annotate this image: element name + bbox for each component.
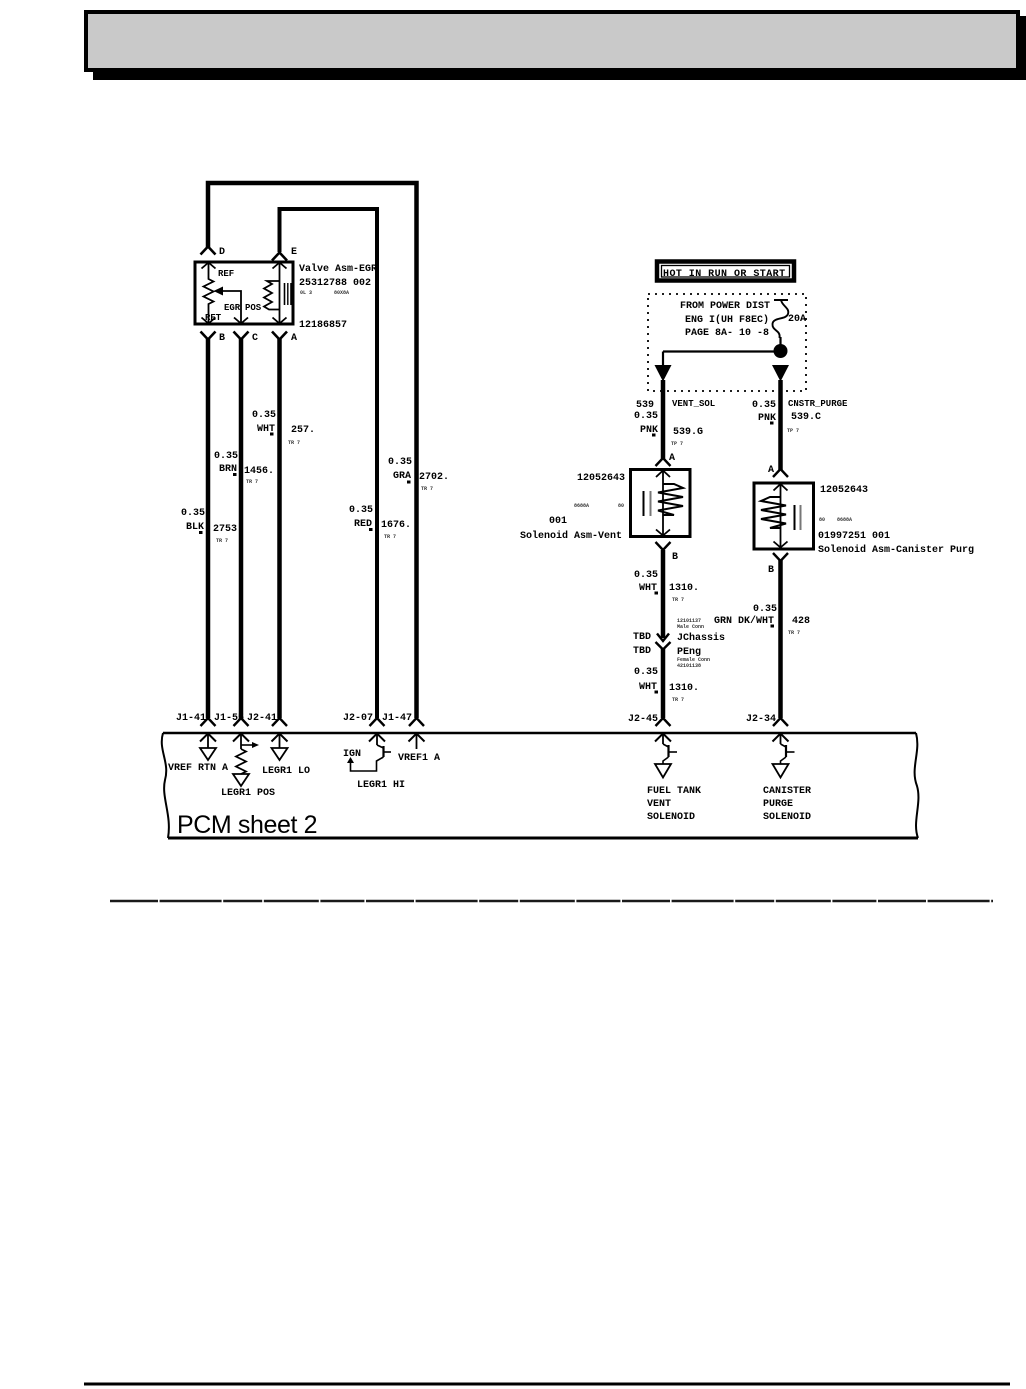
- svg-text:0.35: 0.35: [388, 457, 412, 468]
- PCM box top line: [163, 732, 916, 735]
- svg-text:TR 7: TR 7: [421, 486, 433, 492]
- PCM internal: J2-07 driver LEGR1 HI: [369, 734, 385, 742]
- junction node: [779, 337, 781, 346]
- wire E top loop: [280, 209, 378, 718]
- svg-text:FROM POWER DIST: FROM POWER DIST: [680, 301, 770, 312]
- svg-text:25312788 002: 25312788 002: [299, 278, 371, 289]
- wire WHT 1310 lower: [661, 649, 666, 718]
- PCM internal: J1-47 VREF1 A: [409, 734, 425, 742]
- svg-text:SOLENOID: SOLENOID: [763, 812, 811, 823]
- svg-text:J1-55: J1-55: [214, 713, 244, 724]
- svg-text:0.35: 0.35: [634, 667, 658, 678]
- svg-text:J2-34: J2-34: [746, 714, 776, 725]
- wire GRN DK/WHT 428: [778, 560, 783, 718]
- PCM internal: J1-55 LEGR1 POS with resistor: [233, 734, 249, 742]
- wire bottom connectors at PCM: [201, 718, 216, 726]
- PCM wavy right edge: [915, 733, 919, 838]
- svg-text:GRA: GRA: [393, 471, 411, 482]
- fuse 20A: [774, 299, 788, 301]
- svg-text:12186857: 12186857: [299, 320, 347, 331]
- wire B down: [206, 339, 211, 718]
- svg-text:CANISTER: CANISTER: [763, 786, 811, 797]
- svg-text:42101138: 42101138: [677, 663, 701, 669]
- svg-text:LEGR1 POS: LEGR1 POS: [221, 788, 275, 799]
- EGR solenoid coil: [273, 263, 287, 269]
- HOT IN RUN OR START box: [657, 262, 794, 281]
- wire D top loop: [208, 183, 417, 718]
- svg-text:TR 7: TR 7: [246, 479, 258, 485]
- svg-text:12052643: 12052643: [820, 485, 868, 496]
- svg-text:Solenoid Asm-Vent: Solenoid Asm-Vent: [520, 530, 622, 542]
- svg-text:1676.: 1676.: [381, 520, 411, 531]
- separator line: [110, 900, 993, 902]
- color code ticks: [270, 433, 274, 436]
- svg-text:VREF RTN A: VREF RTN A: [168, 763, 228, 774]
- svg-text:80X8A: 80X8A: [334, 290, 349, 296]
- svg-text:20A: 20A: [788, 314, 806, 325]
- svg-text:0.35: 0.35: [252, 410, 276, 421]
- header bar: [86, 12, 1018, 70]
- svg-text:8688A: 8688A: [574, 503, 589, 509]
- inline connector TBD/TBD: [657, 634, 669, 642]
- svg-text:VREF1 A: VREF1 A: [398, 753, 440, 764]
- wiper arrow: [214, 287, 224, 296]
- svg-text:VENT_SOL: VENT_SOL: [672, 399, 715, 409]
- pin E connector: [272, 253, 287, 261]
- svg-text:Solenoid Asm-Canister Purg: Solenoid Asm-Canister Purg: [818, 544, 974, 556]
- header shadow: [93, 16, 1026, 80]
- svg-text:1310.: 1310.: [669, 583, 699, 594]
- svg-text:IGN: IGN: [343, 749, 361, 760]
- svg-text:539.G: 539.G: [673, 427, 703, 438]
- svg-text:0L 3: 0L 3: [300, 290, 312, 296]
- svg-text:A: A: [291, 333, 297, 344]
- svg-text:TP 7: TP 7: [787, 428, 799, 434]
- svg-text:POS: POS: [245, 303, 262, 313]
- svg-text:2702.: 2702.: [419, 472, 449, 483]
- svg-text:539: 539: [636, 400, 654, 411]
- svg-text:PURGE: PURGE: [763, 799, 793, 810]
- PCM internal: J2-41 LEGR1 LO: [272, 734, 288, 742]
- svg-text:PCM sheet 2: PCM sheet 2: [177, 811, 317, 839]
- svg-text:TBD: TBD: [633, 632, 651, 643]
- svg-text:A: A: [669, 453, 675, 464]
- svg-text:B: B: [672, 552, 678, 563]
- svg-text:TR 7: TR 7: [672, 597, 684, 603]
- svg-text:001: 001: [549, 516, 567, 527]
- svg-text:0.35: 0.35: [634, 570, 658, 581]
- svg-text:JChassis: JChassis: [677, 632, 725, 644]
- svg-text:LEGR1 LO: LEGR1 LO: [262, 766, 310, 777]
- svg-text:80: 80: [618, 503, 624, 509]
- PCM wavy left edge: [162, 733, 169, 838]
- PCM internal: J2-34 driver canister purge: [773, 734, 789, 742]
- svg-text:J2-41: J2-41: [247, 713, 277, 724]
- wire A down: [277, 339, 282, 718]
- svg-text:PAGE 8A- 10 -8: PAGE 8A- 10 -8: [685, 328, 769, 339]
- svg-text:TR 7: TR 7: [384, 534, 396, 540]
- pins B C A connectors: [201, 332, 216, 340]
- PCM internal: J1-41 VREF RTN A: [200, 734, 216, 742]
- svg-text:TP 7: TP 7: [671, 441, 683, 447]
- svg-text:FUEL TANK: FUEL TANK: [647, 786, 701, 797]
- svg-text:LEGR1 HI: LEGR1 HI: [357, 780, 405, 791]
- svg-text:J1-47: J1-47: [382, 713, 412, 724]
- svg-text:EGR: EGR: [224, 303, 241, 313]
- svg-text:RET: RET: [205, 313, 222, 323]
- svg-text:TR 7: TR 7: [788, 630, 800, 636]
- svg-text:01997251 001: 01997251 001: [818, 531, 890, 542]
- svg-text:0.35: 0.35: [181, 508, 205, 519]
- svg-text:C: C: [252, 333, 258, 344]
- svg-text:Valve Asm-EGR: Valve Asm-EGR: [299, 263, 377, 275]
- power dist dashed box: [648, 294, 806, 391]
- PCM box bottom line: [168, 837, 918, 840]
- pin D connector: [201, 247, 216, 255]
- canister purge solenoid box: [754, 483, 814, 549]
- svg-text:SOLENOID: SOLENOID: [647, 812, 695, 823]
- svg-text:1456.: 1456.: [244, 466, 274, 477]
- potentiometer R (EGR pintle position sensor): [202, 263, 216, 269]
- svg-text:D: D: [219, 247, 225, 258]
- svg-text:0.35: 0.35: [753, 604, 777, 615]
- svg-text:2753.: 2753.: [213, 524, 243, 535]
- svg-text:TBD: TBD: [633, 646, 651, 657]
- EGR valve box: [195, 262, 293, 324]
- svg-text:B: B: [768, 565, 774, 576]
- svg-text:HOT IN RUN OR START: HOT IN RUN OR START: [663, 269, 786, 280]
- feed arrows: [655, 365, 672, 382]
- vent solenoid box U-vent: [631, 470, 691, 537]
- bottom rule: [84, 1383, 1010, 1386]
- svg-text:E: E: [291, 247, 297, 258]
- svg-text:A: A: [768, 465, 774, 476]
- svg-text:1310.: 1310.: [669, 683, 699, 694]
- svg-text:TR 7: TR 7: [216, 538, 228, 544]
- svg-text:0.35: 0.35: [634, 411, 658, 422]
- svg-text:J1-41: J1-41: [176, 713, 206, 724]
- svg-text:0.35: 0.35: [214, 451, 238, 462]
- wire PNK to canister purge solenoid: [778, 380, 783, 470]
- svg-text:0.35: 0.35: [752, 400, 776, 411]
- svg-text:539.C: 539.C: [791, 412, 821, 423]
- svg-text:8688A: 8688A: [837, 517, 852, 523]
- wire 539 PNK to vent solenoid: [661, 380, 666, 459]
- svg-text:VENT: VENT: [647, 799, 671, 810]
- svg-text:CNSTR_PURGE: CNSTR_PURGE: [788, 399, 848, 409]
- svg-text:Male Conn: Male Conn: [677, 624, 704, 630]
- svg-text:J2-45: J2-45: [628, 714, 658, 725]
- svg-text:WHT: WHT: [639, 583, 657, 594]
- wire WHT 1310 upper: [661, 550, 666, 638]
- svg-text:0.35: 0.35: [349, 505, 373, 516]
- svg-text:80: 80: [819, 517, 825, 523]
- svg-text:TR 7: TR 7: [288, 440, 300, 446]
- svg-text:ENG I(UH F8EC): ENG I(UH F8EC): [685, 314, 769, 326]
- svg-text:REF: REF: [218, 269, 234, 279]
- svg-text:GRN DK/WHT: GRN DK/WHT: [714, 615, 774, 627]
- svg-text:12052643: 12052643: [577, 473, 625, 484]
- wire C down: [239, 339, 244, 718]
- svg-text:257.: 257.: [291, 425, 315, 436]
- svg-text:J2-07: J2-07: [343, 713, 373, 724]
- svg-text:WHT: WHT: [639, 682, 657, 693]
- PCM internal: J2-45 driver fuel tank vent: [655, 734, 671, 742]
- svg-text:TR 7: TR 7: [672, 697, 684, 703]
- svg-text:B: B: [219, 333, 225, 344]
- svg-text:428: 428: [792, 616, 810, 627]
